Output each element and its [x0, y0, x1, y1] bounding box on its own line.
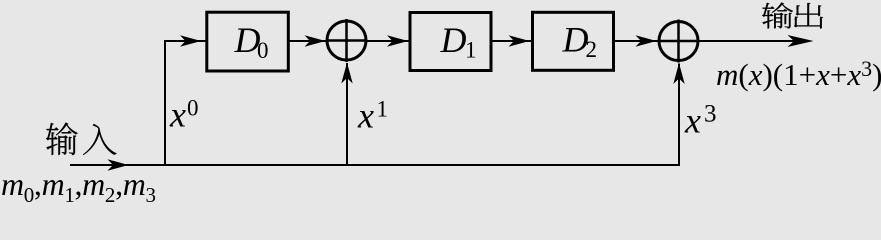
wire: D1 output to D2 with arrowhead	[491, 40, 533, 42]
svg-text:m(x)(1+x+x3): m(x)(1+x+x3)	[716, 56, 881, 92]
delay block D0	[207, 12, 288, 71]
svg-text:D: D	[440, 20, 467, 60]
wire: XOR1 output to D1 with arrowhead	[367, 40, 411, 42]
wire: D0 output to XOR1 with arrowhead	[288, 40, 327, 42]
XOR adder 2 (modulo-2 adder)	[659, 22, 698, 61]
svg-text:x: x	[684, 101, 701, 141]
delay block D1	[410, 13, 491, 71]
svg-text:x: x	[169, 95, 186, 135]
wire: D2 output to XOR2 with arrowhead	[614, 40, 658, 42]
svg-text:2: 2	[586, 37, 598, 62]
svg-text:0: 0	[257, 38, 269, 63]
wire: input arrowhead on feed line	[108, 159, 129, 170]
XOR adder 1 (modulo-2 adder)	[327, 21, 366, 60]
wire: horizontal into D0 with arrowhead	[164, 40, 206, 42]
label 输出 (output)	[762, 3, 823, 29]
svg-text:3: 3	[704, 101, 717, 128]
wire: input feed line (bottom horizontal)	[70, 164, 679, 166]
wire: riser from feed line up into XOR2 with up arrowhead	[678, 64, 680, 167]
label 输入 (input)	[46, 122, 116, 155]
delay block D2	[533, 12, 614, 70]
svg-text:D: D	[562, 20, 589, 60]
svg-text:1: 1	[377, 97, 389, 122]
svg-text:x: x	[357, 96, 374, 136]
svg-text:1: 1	[465, 38, 477, 63]
wire: output line with arrowhead	[699, 40, 809, 42]
svg-text:m0,m1,m2,m3: m0,m1,m2,m3	[1, 166, 156, 203]
wire: riser to D0 input (vertical at x=165)	[164, 40, 166, 166]
wire: riser from feed line up into XOR1 with up arrowhead	[346, 63, 348, 166]
svg-text:0: 0	[187, 96, 199, 121]
